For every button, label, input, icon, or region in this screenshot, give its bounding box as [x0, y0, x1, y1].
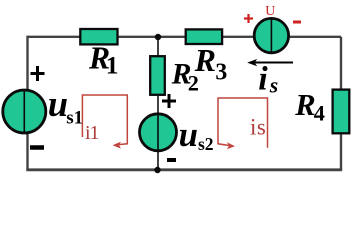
resistor R4 [333, 90, 350, 134]
svg-text:s: s [269, 73, 278, 97]
U minus sign [293, 21, 301, 24]
resistor R3 [186, 29, 222, 44]
junction node bottom [154, 167, 160, 173]
resistor R1 [80, 29, 117, 44]
svg-text:U: U [265, 3, 275, 18]
voltage source us1 [3, 90, 46, 133]
svg-text:i: i [258, 61, 268, 98]
mesh loop is [218, 98, 268, 149]
svg-text:3: 3 [215, 60, 227, 86]
svg-text:2: 2 [188, 71, 199, 96]
wire top [28, 36, 342, 38]
svg-text:is: is [250, 115, 266, 140]
us1 plus sign [31, 66, 45, 81]
voltage source us2 [140, 114, 177, 151]
svg-text:s1: s1 [66, 107, 83, 128]
resistor R2 [150, 56, 165, 95]
wire bottom [26, 168, 342, 171]
junction node top [155, 34, 161, 40]
svg-text:i1: i1 [85, 122, 99, 144]
wire middle branch [157, 37, 159, 170]
wire right [340, 37, 342, 170]
us1 minus sign [30, 145, 44, 150]
svg-text:4: 4 [314, 100, 325, 125]
svg-text:s2: s2 [198, 134, 214, 154]
svg-text:R: R [294, 88, 315, 122]
svg-text:1: 1 [106, 51, 119, 80]
svg-text:u: u [48, 83, 68, 124]
us2 plus sign [162, 94, 176, 108]
wire left [26, 36, 28, 170]
mesh loop i1 [82, 95, 127, 149]
U plus sign [244, 14, 253, 23]
current source U [254, 18, 288, 52]
us2 minus sign [167, 158, 176, 162]
svg-text:u: u [179, 115, 198, 154]
current is arrow [247, 59, 293, 66]
